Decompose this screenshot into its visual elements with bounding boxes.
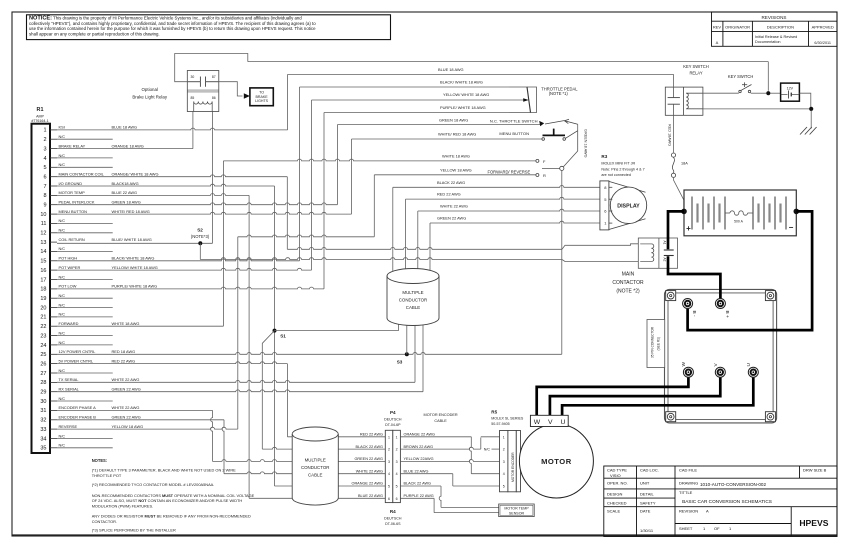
svg-text:TX SERIAL: TX SERIAL <box>59 377 80 382</box>
svg-text:REVISION: REVISION <box>679 508 698 513</box>
svg-text:5: 5 <box>388 485 390 489</box>
svg-text:A: A <box>716 40 719 45</box>
R3 pin 6 <box>604 209 612 214</box>
svg-text:S1: S1 <box>280 334 286 339</box>
svg-text:85: 85 <box>191 96 195 100</box>
wire KSI into relay contact <box>673 74 675 87</box>
wire relay coil to key switch <box>703 92 739 94</box>
svg-text:2: 2 <box>43 137 46 143</box>
svg-text:BLACK 22 AWG: BLACK 22 AWG <box>355 445 383 449</box>
svg-text:OF 24 VDC. ALSO, MUST NOT CONT: OF 24 VDC. ALSO, MUST NOT CONTAIN AN ECO… <box>92 498 243 503</box>
svg-text:MENU BUTTON: MENU BUTTON <box>499 131 529 136</box>
wire display black row <box>393 186 600 188</box>
svg-text:7: 7 <box>43 184 46 190</box>
svg-text:POT LOW: POT LOW <box>59 284 77 289</box>
svg-text:DATE: DATE <box>640 508 651 513</box>
wire contactor to B+ (thick) <box>668 256 720 303</box>
svg-text:BLUE 22 AWG: BLUE 22 AWG <box>358 494 383 498</box>
motor M1 <box>519 424 593 498</box>
wire forward run to F <box>223 159 536 161</box>
svg-text:MAIN: MAIN <box>622 272 635 278</box>
wire display green riser <box>429 223 431 272</box>
wire contactor A1 jog2 <box>562 244 651 250</box>
svg-text:GREEN 18 AWG: GREEN 18 AWG <box>584 129 588 158</box>
wire pot wiper riser <box>311 100 313 270</box>
svg-text:REVERSE: REVERSE <box>59 424 78 429</box>
wire menu run <box>352 138 543 140</box>
wire brake relay orange row <box>57 148 193 150</box>
wire encoder A row <box>57 409 213 411</box>
switch key switch <box>728 74 753 93</box>
svg-text:LIGHTS: LIGHTS <box>255 99 269 103</box>
svg-text:12V POWER CNTRL: 12V POWER CNTRL <box>59 349 97 354</box>
wire forward row <box>57 325 223 327</box>
svg-text:AMP: AMP <box>36 115 44 119</box>
svg-text:GREEN 18 AWG: GREEN 18 AWG <box>112 200 141 205</box>
controller corner bolt <box>765 412 775 422</box>
svg-text:ORANGE 18 AWG: ORANGE 18 AWG <box>112 143 144 148</box>
svg-text:N/C: N/C <box>59 247 66 251</box>
svg-text:KEY SWITCH: KEY SWITCH <box>728 74 753 79</box>
svg-text:33: 33 <box>40 427 46 433</box>
svg-text:CAD TYPE: CAD TYPE <box>607 468 627 473</box>
svg-text:MOTOR ENCODER: MOTOR ENCODER <box>511 452 515 482</box>
svg-text:#776164-1: #776164-1 <box>31 119 48 123</box>
R1 pin 25 <box>40 349 135 358</box>
svg-text:CONDUCTOR: CONDUCTOR <box>399 298 427 303</box>
svg-text:ENCODER PHASE B: ENCODER PHASE B <box>59 415 97 420</box>
wire menu button row <box>57 212 352 214</box>
wire W phase (thick) <box>537 372 689 415</box>
svg-text:(*3) SPLICE PERFORMED BY THE I: (*3) SPLICE PERFORMED BY THE INSTALLER <box>92 528 176 533</box>
svg-text:RED 18 AWG: RED 18 AWG <box>112 349 136 354</box>
svg-text:DRW SIZE B: DRW SIZE B <box>803 468 827 473</box>
node S2 splice <box>191 228 210 246</box>
wire motor temp drop <box>248 195 250 498</box>
R1 pin 30 <box>40 397 112 405</box>
svg-text:U: U <box>746 363 752 367</box>
wire brake relay 30 loop <box>175 54 248 82</box>
terminal B+ <box>715 299 725 309</box>
svg-text:WHITE 18 AWG: WHITE 18 AWG <box>112 321 140 326</box>
R1 pin 21 <box>40 313 112 321</box>
wire red cable row to P4-1 <box>287 436 385 438</box>
svg-text:N/C: N/C <box>59 369 66 373</box>
svg-text:3: 3 <box>396 460 398 464</box>
R1 pin 3 <box>43 143 143 152</box>
node battery - terminal <box>794 209 800 215</box>
svg-text:PEDAL INTERLOCK: PEDAL INTERLOCK <box>59 200 95 205</box>
svg-text:30: 30 <box>40 399 46 405</box>
svg-text:R1: R1 <box>37 107 44 113</box>
svg-text:POT WIPER: POT WIPER <box>59 265 81 270</box>
svg-text:GREEN 22 AWG: GREEN 22 AWG <box>112 415 141 420</box>
svg-text:MAIN CONTACTOR COIL: MAIN CONTACTOR COIL <box>59 172 105 177</box>
wire pot high row <box>57 259 300 261</box>
svg-text:B +: B + <box>724 311 730 319</box>
wire encoder B row <box>57 419 224 421</box>
svg-text:YELLOW 22AWG: YELLOW 22AWG <box>404 457 434 461</box>
svg-text:YELLOW 18 AWG: YELLOW 18 AWG <box>440 168 472 173</box>
svg-text:5: 5 <box>396 485 398 489</box>
svg-text:use the information contained: use the information contained herein for… <box>29 26 316 31</box>
svg-text:10: 10 <box>40 212 46 218</box>
svg-text:N/C: N/C <box>59 219 66 223</box>
svg-text:POT HIGH: POT HIGH <box>59 256 78 261</box>
svg-text:(NOTE *1): (NOTE *1) <box>549 91 569 96</box>
wire display red riser <box>405 199 407 272</box>
R1 pin 26 <box>40 358 135 367</box>
notes text <box>92 458 255 533</box>
R1 pin 29 <box>40 387 140 396</box>
svg-text:5V POWER CNTRL: 5V POWER CNTRL <box>59 358 94 363</box>
svg-text:WHITE 22 AWG: WHITE 22 AWG <box>112 405 140 410</box>
wire display white row <box>418 209 600 211</box>
wire cable-TX drop <box>414 318 416 382</box>
svg-text:KEY SWITCH: KEY SWITCH <box>683 64 708 69</box>
R1 pin 17 <box>40 275 112 283</box>
svg-text:Documentation: Documentation <box>755 40 781 44</box>
svg-text:RED 18AWG: RED 18AWG <box>667 124 671 146</box>
wire green cable row to P4-3 <box>213 460 386 462</box>
svg-text:30: 30 <box>191 75 195 79</box>
svg-text:shall appear on any complete o: shall appear on any complete or partial … <box>29 31 160 36</box>
wire black enc row <box>400 485 441 487</box>
contactor main contactor <box>638 238 677 268</box>
R1 pin 22 <box>40 321 139 330</box>
svg-text:TITTLE: TITTLE <box>679 490 693 495</box>
R3 pin 5 <box>604 197 612 202</box>
svg-text:CONTACTOR: CONTACTOR <box>612 280 644 286</box>
wire pot wiper row <box>57 268 312 270</box>
svg-text:500 A: 500 A <box>734 220 743 224</box>
svg-text:−: − <box>789 223 794 232</box>
R1 pin 5 <box>43 163 112 171</box>
wire brake relay 87 to lights <box>206 82 243 96</box>
wire U phase (thick) <box>562 372 753 415</box>
wire contactor A1 drop <box>286 177 288 250</box>
wire B- to battery- (thick) <box>688 211 813 330</box>
motor terminal box W V U <box>530 415 568 426</box>
node S3 splice <box>397 352 409 364</box>
svg-text:MOTOR: MOTOR <box>541 457 572 466</box>
svg-text:A1: A1 <box>663 241 667 245</box>
wire enc to R5-1 <box>481 436 500 438</box>
connector R4 deutsch <box>384 509 402 526</box>
R5 pin2 N/C stub <box>484 448 500 452</box>
svg-text:35: 35 <box>40 446 46 452</box>
svg-text:6: 6 <box>396 497 398 501</box>
svg-text:YELLOW 18 AWG: YELLOW 18 AWG <box>112 424 144 429</box>
svg-text:1/30/11: 1/30/11 <box>640 528 654 533</box>
svg-text:18: 18 <box>40 287 46 293</box>
svg-text:RED 22 AWG: RED 22 AWG <box>112 358 136 363</box>
wire S1 slant <box>262 331 274 355</box>
svg-text:MOTOR TEMP: MOTOR TEMP <box>504 507 529 511</box>
svg-text:N/C: N/C <box>59 275 66 279</box>
svg-text:REV: REV <box>713 25 722 30</box>
wire brown enc row <box>400 447 480 449</box>
svg-text:WHITE/ RED 18 AWG: WHITE/ RED 18 AWG <box>112 209 150 214</box>
switch menu button <box>499 129 577 141</box>
wire battery+ to contactor (thick) <box>668 211 684 249</box>
wire IO ground row <box>57 184 275 186</box>
wire switch common <box>577 124 579 131</box>
svg-text:BLACK/ WHITE 18 AWG: BLACK/ WHITE 18 AWG <box>440 79 483 84</box>
terminal V <box>715 367 725 377</box>
svg-text:GREEN 22 AWG: GREEN 22 AWG <box>112 387 141 392</box>
R1 pin 24 <box>40 341 112 349</box>
wire pot low row <box>57 287 324 289</box>
wire temp sensor bottom <box>434 512 499 514</box>
relay K2 key switch relay <box>665 64 708 115</box>
svg-text:19: 19 <box>40 296 46 302</box>
svg-text:1: 1 <box>388 435 390 439</box>
wire RX row <box>57 390 423 392</box>
wire blue drop <box>452 474 454 486</box>
svg-text:DEUTSCH: DEUTSCH <box>384 517 402 521</box>
wire pedal interlock row <box>57 203 337 205</box>
svg-text:OPER. NO.: OPER. NO. <box>607 481 628 486</box>
svg-text:SENSOR: SENSOR <box>509 511 525 515</box>
svg-text:S2: S2 <box>197 228 203 233</box>
svg-text:CAD LOC.: CAD LOC. <box>640 468 659 473</box>
svg-text:MOTOR TEMP: MOTOR TEMP <box>59 190 86 195</box>
wire orange enc drop <box>469 437 471 474</box>
wire 12V power row <box>57 353 562 355</box>
wire enc to R5-4 <box>471 473 499 475</box>
wire contactor A1 run <box>287 247 562 249</box>
svg-text:N/C: N/C <box>59 154 66 158</box>
wire key switch to junction <box>751 92 767 94</box>
switch forward/reverse <box>488 131 578 178</box>
svg-text:35 PIN CONNECTOR: 35 PIN CONNECTOR <box>651 326 655 358</box>
wire display green row <box>430 221 600 223</box>
sensor motor temp <box>499 504 535 517</box>
wire pot high run <box>300 86 510 88</box>
svg-text:R4: R4 <box>390 509 396 514</box>
wire reverse run to R <box>374 174 536 176</box>
svg-text:N/C: N/C <box>59 397 66 401</box>
svg-text:HPEVS: HPEVS <box>799 518 828 528</box>
svg-text:KSI: KSI <box>59 125 65 130</box>
svg-text:I/O GROUND: I/O GROUND <box>59 181 83 186</box>
svg-text:2: 2 <box>388 448 390 452</box>
svg-text:26: 26 <box>40 361 46 367</box>
R1 pin 9 <box>43 200 140 209</box>
controller (motor controller) <box>665 289 777 423</box>
wire motor temp row <box>57 194 249 196</box>
multiple conductor cable (lower) <box>292 427 338 505</box>
connector R5 molex <box>491 409 524 492</box>
svg-text:DESCRIPTION: DESCRIPTION <box>767 25 794 30</box>
svg-text:WHITE 22 AWG: WHITE 22 AWG <box>440 203 468 208</box>
connector P4 deutsch <box>384 410 402 502</box>
wire pedal interlock run <box>337 124 540 126</box>
R1 pin 7 <box>43 181 138 190</box>
wire yellow enc row to R5-3 <box>400 460 499 462</box>
controller corner bolt <box>765 291 775 301</box>
wire red18 down <box>673 115 675 152</box>
wire black cable row to P4-2 <box>262 447 385 449</box>
svg-text:UNIT: UNIT <box>640 481 650 486</box>
wire encoder B drop <box>222 420 224 474</box>
svg-text:ORANGE/ WHITE 18 AWG: ORANGE/ WHITE 18 AWG <box>112 172 159 177</box>
terminal U <box>748 367 758 377</box>
wire contactor A2 run <box>200 258 562 260</box>
svg-text:RELAY: RELAY <box>689 71 702 76</box>
P4 pin 6 <box>388 497 398 501</box>
svg-text:A: A <box>706 508 709 513</box>
svg-text:BASIC CAR CONVERSION SCHEMAT: BASIC CAR CONVERSION SCHEMATICS <box>682 499 772 504</box>
revisions table <box>712 12 838 46</box>
wire main contactor coil row <box>57 175 287 177</box>
svg-text:N/C: N/C <box>59 135 66 139</box>
title block <box>604 466 837 537</box>
wire pot low run <box>324 112 510 114</box>
R1 pin 33 <box>40 424 143 433</box>
wire ground drop lower <box>274 331 276 486</box>
svg-text:OF: OF <box>714 526 720 531</box>
R3 pin 1 <box>604 221 612 226</box>
P4 pin 5 <box>388 485 398 489</box>
svg-text:CONTACTOR.: CONTACTOR. <box>92 519 117 524</box>
svg-text:17: 17 <box>40 277 46 283</box>
svg-text:5: 5 <box>43 165 46 171</box>
svg-text:BRAKE RELAY: BRAKE RELAY <box>59 143 86 148</box>
svg-text:18A: 18A <box>681 161 688 165</box>
P4 pin 4 <box>388 472 398 476</box>
svg-text:CHECKED: CHECKED <box>607 501 627 506</box>
svg-text:N/C: N/C <box>59 229 66 233</box>
svg-text:12V: 12V <box>787 86 794 90</box>
wire fuse to battery+ <box>674 178 684 212</box>
wire temp sensor top <box>441 506 499 508</box>
R1 pin 13 <box>40 237 151 246</box>
svg-text:3: 3 <box>388 460 390 464</box>
svg-text:+: + <box>686 224 691 233</box>
svg-text:N/C: N/C <box>59 294 66 298</box>
svg-text:2: 2 <box>503 448 505 452</box>
svg-text:CONDUCTOR: CONDUCTOR <box>301 465 329 470</box>
svg-text:GREEN 22 AWG: GREEN 22 AWG <box>437 216 466 221</box>
wire brown riser <box>480 438 482 450</box>
svg-text:N/C: N/C <box>484 448 491 452</box>
battery pack (traction) <box>684 190 796 236</box>
notice box <box>27 15 391 40</box>
svg-text:20: 20 <box>40 305 46 311</box>
svg-text:N/C: N/C <box>59 444 66 448</box>
svg-text:8: 8 <box>43 193 46 199</box>
wire encoder A drop <box>211 410 213 461</box>
wire orange enc row <box>400 436 471 438</box>
wire pot high riser <box>299 87 301 261</box>
svg-text:BLUE 22 AWG: BLUE 22 AWG <box>112 190 138 195</box>
svg-text:MOLEX MINI FIT JR: MOLEX MINI FIT JR <box>601 162 635 166</box>
svg-text:5: 5 <box>503 485 505 489</box>
svg-text:SAFETY: SAFETY <box>640 501 656 506</box>
svg-text:GREEN 18 AWG: GREEN 18 AWG <box>439 117 468 122</box>
wire cable-S1 drop <box>398 318 400 331</box>
R3 pin 8 <box>604 185 612 190</box>
node S1 splice <box>273 329 287 339</box>
svg-text:PURPLE/ WHITE 18 AWG: PURPLE/ WHITE 18 AWG <box>112 284 158 289</box>
svg-text:N/C: N/C <box>59 341 66 345</box>
R1 pin 32 <box>40 415 140 424</box>
svg-text:REVISIONS: REVISIONS <box>761 15 786 20</box>
svg-text:R3: R3 <box>601 154 607 159</box>
svg-text:R: R <box>543 173 546 178</box>
wire black temp drop <box>439 486 441 507</box>
svg-text:6/30/2011: 6/30/2011 <box>814 41 831 45</box>
svg-text:BLUE/ WHITE 18 AWG: BLUE/ WHITE 18 AWG <box>112 237 152 242</box>
svg-text:DT-04-6P: DT-04-6P <box>385 423 401 427</box>
svg-text:1010-AUTO-CONVERSION-002: 1010-AUTO-CONVERSION-002 <box>700 482 766 487</box>
svg-text:86: 86 <box>212 96 216 100</box>
multiple conductor cable (upper) <box>387 269 439 326</box>
svg-text:MOTOR ENCODER: MOTOR ENCODER <box>424 413 458 417</box>
wire V phase (thick) <box>550 372 720 415</box>
R1 pin 4 <box>43 154 112 162</box>
svg-text:BLACK 22 AWG: BLACK 22 AWG <box>437 180 465 185</box>
R1 pin 28 <box>40 377 139 386</box>
svg-text:FORWARD/ REVERSE: FORWARD/ REVERSE <box>488 169 531 174</box>
svg-text:APPROVED: APPROVED <box>812 25 834 30</box>
svg-text:13: 13 <box>40 240 46 246</box>
R1 pin 18 <box>40 284 157 293</box>
svg-text:DISPLAY: DISPLAY <box>617 203 640 209</box>
connector R1 (AMP 35-pin) <box>31 107 50 453</box>
svg-text:(SEE R1): (SEE R1) <box>657 337 661 350</box>
node key switch junction <box>766 91 770 95</box>
svg-text:B -: B - <box>691 311 697 318</box>
terminal W <box>683 367 693 377</box>
svg-text:87: 87 <box>212 75 216 79</box>
svg-text:Initial Release & Revised: Initial Release & Revised <box>755 35 797 39</box>
wire forward riser <box>222 161 224 326</box>
svg-text:1: 1 <box>43 128 46 134</box>
arrow to brake lights <box>244 93 250 98</box>
svg-text:ORANGE 22 AWG: ORANGE 22 AWG <box>404 433 436 437</box>
svg-text:MULTIPLE: MULTIPLE <box>402 290 423 295</box>
svg-text:Brake Light Relay: Brake Light Relay <box>132 95 167 100</box>
svg-text:U: U <box>560 419 565 426</box>
svg-text:VISIO: VISIO <box>610 473 621 478</box>
wire KSI blue row <box>57 128 288 130</box>
svg-text:COIL RETURN: COIL RETURN <box>59 237 85 242</box>
svg-text:3: 3 <box>503 460 505 464</box>
svg-text:31: 31 <box>40 408 46 414</box>
svg-text:25: 25 <box>40 352 46 358</box>
wire relay coil to ground <box>703 108 809 110</box>
battery 12V aux <box>781 83 800 101</box>
svg-text:11: 11 <box>41 221 47 227</box>
svg-text:DRAWING: DRAWING <box>679 481 698 486</box>
svg-text:collectively “HPEVS”), and con: collectively “HPEVS”), and contains high… <box>29 21 316 26</box>
svg-text:WHITE/ RED 18 AWG: WHITE/ RED 18 AWG <box>438 132 476 137</box>
node ground junction <box>809 107 813 111</box>
svg-text:W: W <box>681 362 687 367</box>
svg-text:WHITE 22 AWG: WHITE 22 AWG <box>356 469 383 473</box>
svg-text:29: 29 <box>40 390 46 396</box>
P4 pin 3 <box>388 460 398 464</box>
wire orange cable row to P4-5 <box>275 485 386 487</box>
svg-text:MULTIPLE: MULTIPLE <box>305 458 326 463</box>
svg-text:DT-06-6S: DT-06-6S <box>385 522 401 526</box>
wire cable-RX drop <box>422 318 424 392</box>
wire 5V power row <box>57 362 287 364</box>
R1 pin 8 <box>43 190 137 199</box>
